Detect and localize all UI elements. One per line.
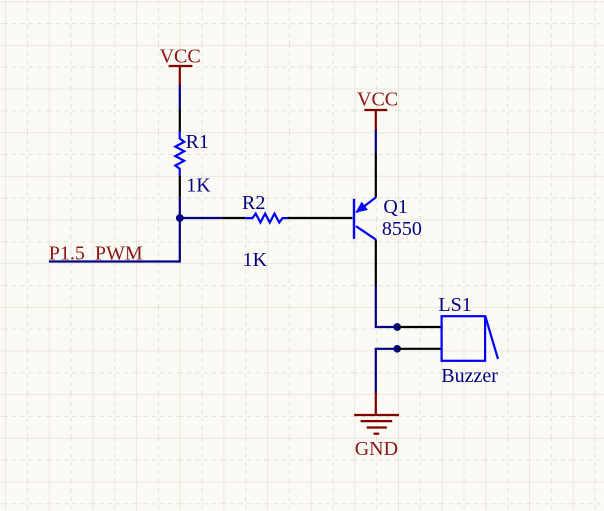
R1 pin 1	[179, 110, 181, 132]
svg-text:P1.5 PWM: P1.5 PWM	[49, 242, 143, 264]
transistor Q1 (PNP 8550)	[353, 197, 376, 239]
svg-text:8550: 8550	[382, 218, 422, 240]
Q1 emitter pin	[375, 153, 377, 198]
LS1 pin 2	[397, 348, 443, 350]
R2 pin 2	[287, 217, 310, 219]
junction dot A	[176, 214, 184, 222]
svg-text:Buzzer: Buzzer	[441, 365, 498, 387]
svg-text:Q1: Q1	[383, 196, 407, 218]
buzzer LS1 body	[442, 316, 498, 361]
wire VCC to R1	[179, 85, 181, 110]
svg-text:1K: 1K	[243, 249, 268, 271]
R2 pin 1	[222, 217, 245, 219]
resistor R2 body	[245, 214, 287, 223]
junction dot C	[393, 345, 401, 353]
junction dot B	[393, 323, 401, 331]
wire VCC to Q1 emitter	[375, 130, 377, 153]
power port GND	[354, 392, 399, 434]
wire junction to R2	[179, 217, 222, 219]
resistor R1 body	[175, 131, 184, 175]
svg-text:R1: R1	[186, 131, 209, 153]
svg-text:LS1: LS1	[438, 294, 471, 316]
power port VCC (left)	[169, 66, 193, 86]
Q1 base pin	[311, 217, 353, 219]
wire R1 to junction	[179, 197, 181, 218]
svg-text:VCC: VCC	[357, 88, 398, 110]
Q1 collector pin	[375, 240, 377, 287]
svg-text:GND: GND	[355, 438, 398, 460]
LS1 pin 1	[397, 326, 443, 328]
R1 pin 2	[179, 175, 181, 197]
power port VCC (right)	[364, 110, 387, 131]
svg-text:1K: 1K	[186, 175, 211, 197]
wire collector to buzzer pin 1	[376, 285, 397, 327]
wire junction to P1.5 PWM	[49, 217, 180, 262]
svg-text:R2: R2	[242, 192, 265, 214]
wire GND to buzzer pin 2	[376, 349, 397, 393]
svg-text:VCC: VCC	[160, 45, 201, 67]
